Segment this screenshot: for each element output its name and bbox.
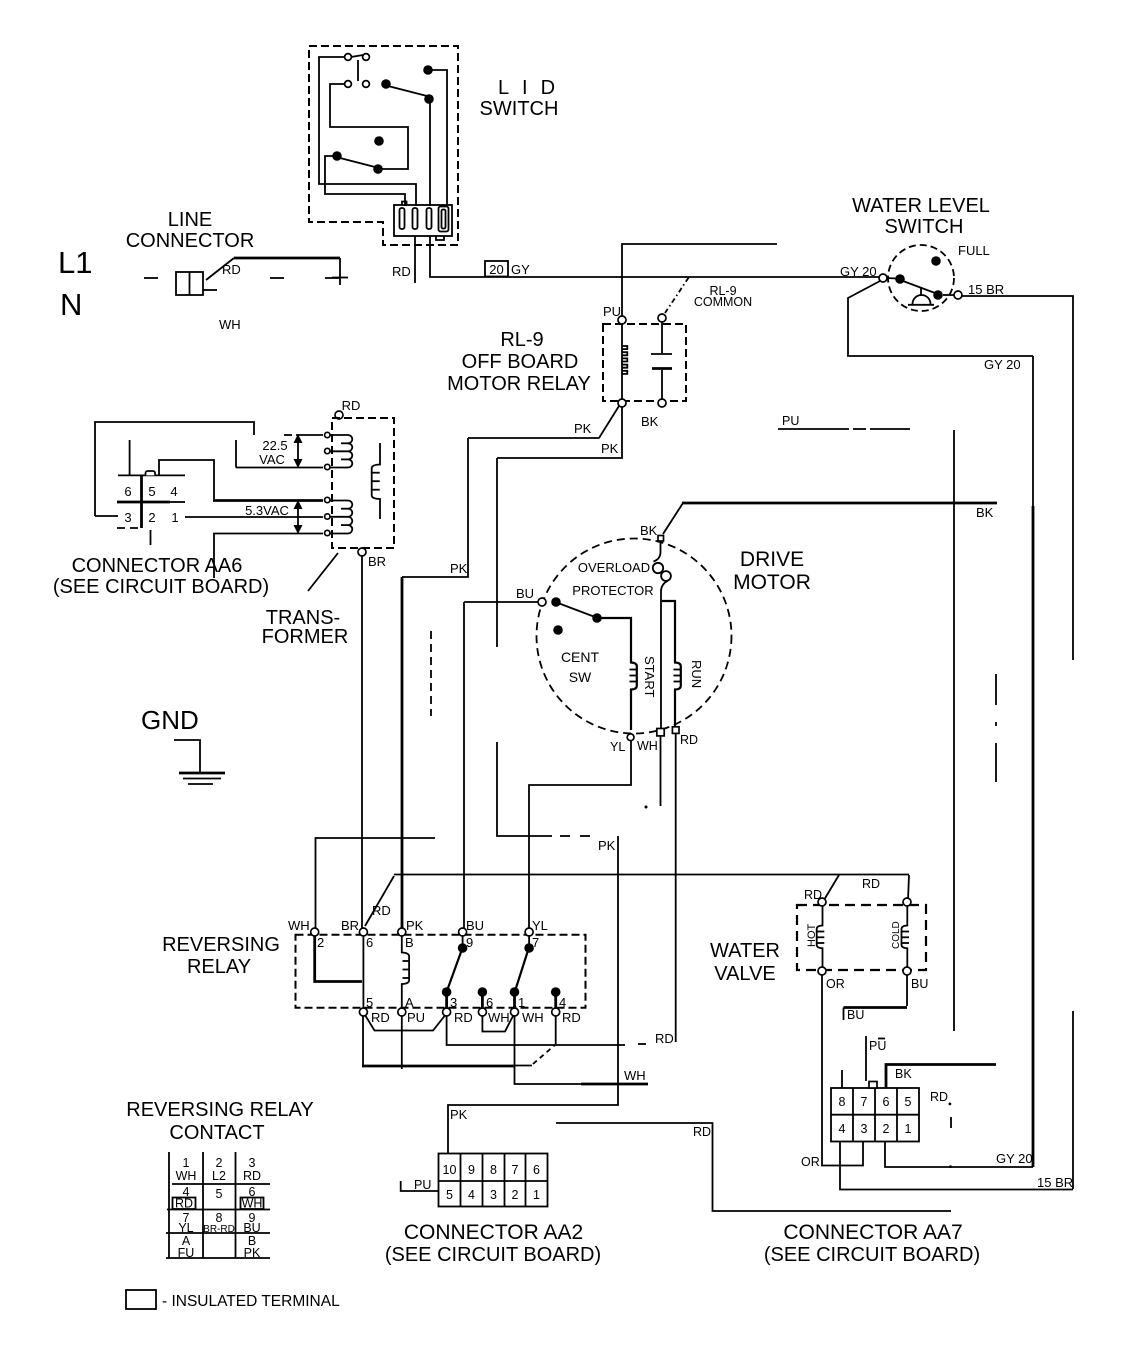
svg-text:A: A	[405, 995, 414, 1010]
svg-text:L2: L2	[212, 1169, 226, 1183]
contact FULL dot	[931, 256, 941, 266]
wire pin5 up	[129, 440, 131, 475]
svg-text:6: 6	[883, 1095, 890, 1109]
svg-text:RD: RD	[372, 903, 391, 918]
water valve dashed box	[797, 905, 926, 970]
wire 15BR across	[962, 296, 1073, 660]
terminal BR	[358, 548, 366, 556]
ground symbol	[174, 740, 200, 772]
svg-text:4: 4	[170, 484, 177, 499]
svg-text:(SEE CIRCUIT BOARD): (SEE CIRCUIT BOARD)	[385, 1244, 601, 1266]
relay coil	[402, 936, 409, 1008]
stub 6 bottom	[478, 987, 488, 997]
svg-text:CONNECTOR AA2: CONNECTOR AA2	[404, 1221, 583, 1244]
wire PK2 drop lower	[497, 742, 552, 836]
svg-text:3: 3	[490, 1188, 497, 1202]
svg-text:YL: YL	[532, 918, 548, 933]
svg-text:10: 10	[443, 1163, 457, 1177]
wire YL out	[529, 741, 631, 929]
svg-text:6: 6	[486, 995, 493, 1010]
insulated terminal legend	[126, 1290, 156, 1309]
cent sw moving dot	[592, 613, 602, 623]
svg-text:CONTACT: CONTACT	[169, 1122, 264, 1144]
svg-text:GY: GY	[511, 262, 530, 277]
terminal BU	[538, 598, 546, 606]
wire PK2 dashes	[560, 835, 570, 837]
wire GY20 branch down	[848, 281, 1033, 356]
wire RD thick run	[362, 1065, 514, 1068]
cent sw open dot	[553, 625, 563, 635]
svg-text:4: 4	[839, 1122, 846, 1136]
wire 3 drop RD	[447, 1016, 625, 1045]
switch S3 open dot	[374, 136, 384, 146]
wire bottom tap	[214, 534, 323, 579]
svg-text:RD: RD	[454, 1010, 473, 1025]
svg-text:PU: PU	[414, 1178, 431, 1192]
switch S3 arm	[340, 158, 375, 167]
tap line 3	[236, 467, 323, 469]
svg-text:2: 2	[216, 1156, 223, 1170]
leader to transformer	[308, 553, 338, 591]
switch S1 link bar	[351, 55, 363, 57]
svg-text:WH: WH	[624, 1068, 646, 1083]
svg-text:BU: BU	[847, 1008, 864, 1022]
wire S3 to pin1	[325, 156, 405, 206]
svg-text:(SEE CIRCUIT BOARD): (SEE CIRCUIT BOARD)	[53, 576, 269, 598]
terminal COLD bottom	[903, 967, 911, 975]
wire 4 stub	[555, 1016, 557, 1044]
connector top notch	[402, 202, 407, 206]
lid switch dashed enclosure	[309, 46, 458, 245]
terminal BK square	[658, 536, 664, 542]
svg-text:PU: PU	[407, 1010, 425, 1025]
svg-text:PU: PU	[603, 304, 621, 319]
svg-text:5: 5	[216, 1187, 223, 1201]
svg-text:RD: RD	[371, 1010, 390, 1025]
svg-text:5: 5	[148, 484, 155, 499]
svg-text:RUN: RUN	[689, 660, 704, 688]
wire GY20 into pin2	[885, 1142, 1033, 1167]
svg-text:6: 6	[533, 1163, 540, 1177]
svg-text:MOTOR: MOTOR	[733, 571, 811, 594]
switch 9-3	[462, 936, 464, 944]
svg-text:RD: RD	[562, 1010, 581, 1025]
svg-text:YL: YL	[610, 740, 625, 754]
svg-text:GND: GND	[141, 705, 199, 735]
transformer dashed box	[332, 418, 394, 548]
bottom terminals	[359, 1008, 367, 1016]
terminal 7	[525, 928, 533, 936]
contact table grid	[168, 1152, 170, 1258]
svg-text:WH: WH	[176, 1169, 197, 1183]
wire PK down left	[402, 438, 468, 577]
wire PU dashed run	[778, 428, 849, 430]
terminal B	[398, 928, 406, 936]
svg-text:CONNECTOR AA7: CONNECTOR AA7	[783, 1221, 962, 1244]
terminal 9	[459, 928, 467, 936]
terminal 2	[311, 928, 319, 936]
cent sw arm	[558, 603, 595, 617]
reversing relay dashed box	[296, 935, 586, 1008]
start winding	[599, 618, 637, 730]
svg-text:PK: PK	[450, 1107, 468, 1122]
svg-text:WH: WH	[288, 918, 310, 933]
svg-text:5: 5	[905, 1095, 912, 1109]
wire dot to pin4	[431, 70, 447, 206]
svg-text:OR: OR	[826, 977, 845, 991]
svg-text:WH: WH	[242, 1197, 263, 1211]
terminal PU	[618, 316, 626, 324]
svg-text:YL: YL	[178, 1221, 193, 1235]
wire BK run	[682, 502, 997, 505]
svg-text:BU: BU	[243, 1221, 260, 1235]
svg-text:1: 1	[533, 1188, 540, 1202]
switch S2 contacts	[345, 81, 352, 88]
svg-text:OR: OR	[801, 1155, 820, 1169]
svg-text:DRIVE: DRIVE	[740, 548, 804, 571]
svg-text:4: 4	[468, 1188, 475, 1202]
wire 5-3 jumper	[365, 1015, 445, 1031]
svg-text:RD: RD	[930, 1090, 948, 1104]
svg-text:GY 20: GY 20	[996, 1151, 1033, 1166]
wire GY20 right drop thin	[1032, 356, 1034, 506]
svg-text:FORMER: FORMER	[262, 626, 349, 648]
connector bottom notch	[436, 236, 444, 240]
wire BR long drop	[361, 556, 363, 929]
svg-text:RD: RD	[693, 1125, 711, 1139]
svg-text:REVERSING RELAY: REVERSING RELAY	[126, 1099, 313, 1121]
wire pin2 stub	[150, 530, 152, 545]
svg-text:HOT: HOT	[806, 924, 818, 948]
wire stub right of connector	[203, 289, 217, 291]
terminal YL	[627, 734, 634, 741]
wire A drop	[401, 1016, 403, 1069]
svg-text:RD: RD	[655, 1031, 674, 1046]
svg-text:1: 1	[905, 1122, 912, 1136]
terminal contact top (RL-9 COMMON)	[658, 314, 666, 322]
svg-text:BK: BK	[976, 505, 994, 520]
svg-text:PK: PK	[244, 1246, 261, 1260]
drive motor dashed circle	[537, 539, 732, 734]
svg-text:- INSULATED TERMINAL: - INSULATED TERMINAL	[162, 1293, 340, 1310]
wire dashed diagonal to 4	[533, 1045, 555, 1064]
terminal HOT top	[818, 898, 826, 906]
connector pin 4	[439, 207, 449, 232]
wire dash left of connector	[144, 277, 158, 279]
svg-text:3: 3	[124, 510, 131, 525]
connector pin 2	[413, 208, 418, 229]
wire PU into pin7	[865, 1036, 867, 1081]
secondary winding 22.5V	[330, 434, 348, 436]
switch S2 common dot	[381, 79, 391, 89]
svg-text:PK: PK	[406, 918, 424, 933]
terminal RD	[672, 727, 679, 734]
wire 2 to 6 internal	[315, 936, 362, 982]
wire RD leader diagonal	[206, 258, 234, 280]
svg-text:BR: BR	[341, 918, 359, 933]
wire RD drop to COLD	[908, 875, 909, 900]
svg-text:BR-RD: BR-RD	[203, 1224, 235, 1235]
wire BK into pin6	[886, 1065, 996, 1089]
relay coil	[621, 324, 623, 400]
wire B dangling	[235, 440, 237, 468]
terminal taps	[325, 432, 330, 437]
coil COLD	[902, 906, 908, 967]
wire 5 drop	[362, 1016, 364, 1066]
wire pin4 to 5.3 tap	[159, 460, 214, 499]
wire 6-5 internal	[362, 936, 364, 1008]
svg-text:WH: WH	[488, 1010, 510, 1025]
svg-text:BU: BU	[911, 977, 928, 991]
svg-text:MOTOR RELAY: MOTOR RELAY	[447, 373, 591, 395]
svg-text:20: 20	[489, 262, 503, 277]
svg-text:8: 8	[490, 1163, 497, 1177]
terminal contact bottom	[658, 399, 666, 407]
svg-text:RD: RD	[680, 733, 698, 747]
svg-text:LINE: LINE	[168, 209, 212, 231]
wire RD to AA7	[556, 1123, 951, 1211]
svg-text:VALVE: VALVE	[714, 963, 776, 985]
svg-text:VAC: VAC	[259, 452, 285, 467]
wire PK2 from contact bottom	[497, 407, 622, 458]
svg-text:CENT: CENT	[561, 649, 600, 665]
terminal GY20	[879, 274, 887, 282]
wire RD to water valve	[394, 874, 909, 876]
wire sw1 lead-in	[319, 57, 416, 206]
svg-text:6: 6	[124, 484, 131, 499]
switch S2 arm	[388, 86, 427, 96]
wire 5.3 thick	[213, 499, 323, 502]
svg-text:BK: BK	[640, 523, 658, 538]
connector AA6 grid	[118, 474, 185, 476]
svg-text:COLD: COLD	[891, 921, 902, 949]
svg-text:RD: RD	[862, 877, 880, 891]
svg-text:OVERLOAD: OVERLOAD	[578, 560, 650, 575]
svg-text:PK: PK	[574, 421, 592, 436]
wire BU	[906, 975, 908, 1006]
node top-right dot	[423, 65, 433, 75]
svg-text:6: 6	[366, 935, 373, 950]
svg-text:PK: PK	[450, 561, 468, 576]
svg-text:SWITCH: SWITCH	[885, 216, 964, 238]
dimension arrow 22.5	[297, 440, 299, 462]
wire link S1-S2	[357, 60, 359, 81]
svg-text:WH: WH	[637, 739, 658, 753]
line connector body	[176, 272, 203, 295]
wire pin8 stub	[841, 1070, 843, 1088]
svg-text:PU: PU	[869, 1039, 886, 1053]
wire RD diagonal to HOT	[824, 875, 839, 900]
wire GY20 right drop thick	[1032, 506, 1035, 1167]
svg-text:BK: BK	[641, 414, 659, 429]
svg-text:BU: BU	[466, 918, 484, 933]
svg-text:15 BR: 15 BR	[968, 282, 1004, 297]
svg-text:RD: RD	[392, 264, 411, 279]
svg-text:8: 8	[839, 1095, 846, 1109]
terminal COLD top	[903, 898, 911, 906]
wire 20 GY	[430, 236, 883, 277]
svg-text:N: N	[60, 287, 82, 322]
svg-text:1: 1	[183, 1156, 190, 1170]
terminal RD	[335, 411, 343, 419]
relay RL-9 dashed box	[603, 324, 686, 401]
cent sw common dot	[551, 597, 561, 607]
wire RD thick run	[234, 257, 340, 260]
svg-text:RD: RD	[243, 1169, 261, 1183]
wire RD drop	[339, 258, 341, 285]
switch S1 contacts	[345, 54, 352, 61]
svg-text:GY 20: GY 20	[984, 357, 1021, 372]
svg-text:3: 3	[861, 1122, 868, 1136]
svg-text:WATER: WATER	[710, 940, 780, 962]
terminal 15BR	[954, 291, 962, 299]
terminal WH	[657, 729, 664, 736]
svg-text:RD: RD	[175, 1197, 193, 1211]
svg-text:CONNECTOR: CONNECTOR	[126, 230, 255, 252]
connector AA7 grid	[831, 1088, 919, 1142]
run winding	[662, 601, 681, 727]
wire RD diagonal riser	[365, 876, 394, 926]
wire PK thick drop to relay B	[401, 577, 404, 929]
wire BK dash-dot continuation	[995, 674, 997, 784]
svg-text:3: 3	[450, 995, 457, 1010]
dashed stub	[430, 631, 432, 716]
svg-text:RD: RD	[222, 262, 241, 277]
svg-text:B: B	[405, 935, 414, 950]
terminal HOT bottom	[818, 967, 826, 975]
wire BU in	[464, 601, 538, 603]
svg-text:BK: BK	[895, 1067, 912, 1081]
svg-text:CONNECTOR AA6: CONNECTOR AA6	[72, 555, 243, 577]
label 20 box	[485, 261, 508, 277]
wire PK2 drop upper	[496, 458, 498, 647]
svg-text:5.3VAC: 5.3VAC	[245, 503, 289, 518]
switch S3 left dot	[332, 151, 342, 161]
svg-text:L1: L1	[58, 245, 92, 280]
wire RD from lid connector	[414, 236, 416, 283]
wire WH out	[660, 736, 662, 806]
wire BU drop	[463, 602, 465, 929]
svg-text:WATER LEVEL: WATER LEVEL	[852, 195, 990, 217]
wire sw2 lead-in	[330, 84, 408, 169]
wire top loop	[95, 422, 254, 516]
wire pin3 left	[95, 515, 118, 517]
svg-text:5: 5	[446, 1188, 453, 1202]
coil HOT	[817, 906, 823, 967]
svg-text:1: 1	[171, 510, 178, 525]
diaphragm symbol	[920, 287, 922, 296]
wire PU into pin 5	[401, 1181, 438, 1191]
svg-text:REVERSING: REVERSING	[162, 934, 280, 956]
wire pin1 to mid tap	[185, 516, 323, 518]
switch S3 right dot	[373, 164, 383, 174]
svg-text:4: 4	[559, 995, 566, 1010]
overload protector element	[654, 541, 661, 562]
svg-text:8: 8	[216, 1211, 223, 1225]
svg-text:SWITCH: SWITCH	[480, 98, 559, 120]
svg-text:(SEE CIRCUIT BOARD): (SEE CIRCUIT BOARD)	[764, 1244, 980, 1266]
terminal 6	[359, 928, 367, 936]
svg-text:BU: BU	[516, 586, 534, 601]
wire BK diagonal	[663, 503, 683, 534]
wire 6-1 jumper	[482, 1016, 513, 1032]
switch arm	[903, 281, 935, 293]
tap line 1	[284, 434, 292, 436]
svg-text:FULL: FULL	[958, 243, 990, 258]
svg-text:5: 5	[366, 995, 373, 1010]
svg-text:2: 2	[148, 510, 155, 525]
connector shell	[394, 205, 452, 236]
relay contact plates	[661, 322, 663, 353]
svg-text:15 BR: 15 BR	[1037, 1175, 1073, 1190]
svg-text:2: 2	[883, 1122, 890, 1136]
dimension arrow 5.3	[297, 506, 299, 528]
svg-text:FU: FU	[178, 1246, 195, 1260]
primary winding	[372, 443, 380, 519]
svg-text:1: 1	[518, 995, 525, 1010]
svg-text:WH: WH	[219, 317, 241, 332]
wire 1 drop WH	[515, 1016, 582, 1084]
switch 7-1	[528, 936, 530, 944]
svg-text:PK: PK	[598, 838, 616, 853]
secondary winding 5.3V	[330, 500, 348, 502]
svg-text:2: 2	[512, 1188, 519, 1202]
wire PU up and over	[622, 244, 777, 316]
svg-text:COMMON: COMMON	[694, 295, 752, 309]
svg-text:PROTECTOR: PROTECTOR	[572, 583, 653, 598]
wire RD out	[675, 734, 677, 1043]
svg-text:GY 20: GY 20	[840, 264, 877, 279]
insulated notch	[146, 471, 156, 475]
wire 15BR into pin4	[840, 1142, 1073, 1190]
svg-text:2: 2	[317, 935, 324, 950]
stub 4 bottom	[551, 987, 561, 997]
svg-text:WH: WH	[522, 1010, 544, 1025]
terminal coil bottom	[618, 399, 626, 407]
svg-text:9: 9	[468, 1163, 475, 1177]
node cross	[332, 277, 348, 279]
wire PK from coil bottom	[468, 406, 619, 438]
wire S2 dot to pin3	[429, 101, 431, 206]
svg-text:SW: SW	[569, 669, 592, 685]
svg-text:OFF BOARD: OFF BOARD	[462, 351, 579, 373]
water level switch dashed circle	[888, 245, 954, 311]
svg-text:PK: PK	[601, 441, 619, 456]
wire OR long drop	[822, 975, 863, 1166]
svg-text:PU: PU	[782, 414, 799, 428]
svg-text:22.5: 22.5	[262, 438, 287, 453]
svg-text:7: 7	[512, 1163, 519, 1177]
wire 15BR lower	[1072, 1011, 1074, 1189]
switch moving dot	[933, 290, 943, 300]
switch common dot	[895, 274, 905, 284]
wire WH terminal 2	[316, 838, 436, 928]
svg-text:BR: BR	[368, 554, 386, 569]
wire N dashes	[270, 277, 284, 279]
svg-text:START: START	[642, 656, 657, 697]
connector AA2 grid	[439, 1154, 548, 1207]
svg-text:RD: RD	[342, 398, 361, 413]
connector pin 3	[427, 208, 432, 229]
svg-text:7: 7	[861, 1095, 868, 1109]
svg-text:RELAY: RELAY	[187, 956, 251, 978]
wire RL-9 COMMON leader	[665, 277, 689, 313]
wire PU drop	[953, 430, 955, 1031]
insulated terminal square on pin7	[869, 1082, 877, 1089]
wire PK2 long drop	[448, 836, 618, 1153]
connector pin 1	[400, 208, 405, 229]
svg-text:LID: LID	[498, 77, 568, 99]
